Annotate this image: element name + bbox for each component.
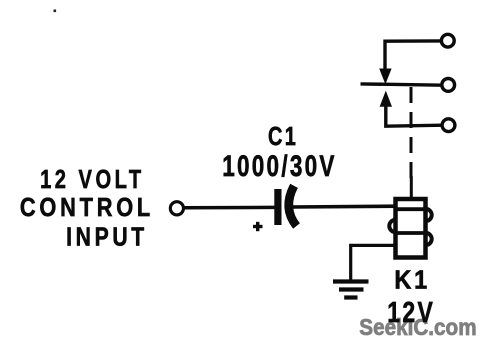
stray mark — [54, 10, 57, 13]
wire: coil to ground — [351, 245, 398, 281]
arrowhead up (NO contact armature) — [380, 91, 392, 107]
wire: top contact — [385, 41, 442, 70]
input terminal — [170, 202, 183, 215]
capacitor C1 — [253, 186, 297, 231]
svg-text:C1: C1 — [268, 121, 298, 151]
wire: C1 to relay coil — [291, 204, 397, 208]
svg-text:1000/30V: 1000/30V — [222, 150, 337, 183]
contact terminal top — [441, 34, 454, 47]
svg-text:12 VOLT: 12 VOLT — [40, 164, 145, 194]
mechanical linkage (dashed) — [410, 87, 413, 178]
wire: input terminal to C1 — [184, 206, 276, 210]
contact terminal middle — [442, 79, 455, 92]
svg-text:CONTROL: CONTROL — [20, 192, 154, 222]
wire: bottom contact — [386, 106, 443, 127]
svg-text:12V: 12V — [387, 297, 435, 329]
svg-text:INPUT: INPUT — [66, 222, 148, 252]
wire: common pole (middle) — [361, 84, 443, 85]
arrowhead down (NC contact armature) — [379, 69, 391, 85]
ground — [333, 282, 369, 298]
contact terminal bottom — [442, 119, 455, 132]
svg-text:K1: K1 — [394, 267, 430, 295]
relay coil K1 — [389, 176, 431, 258]
